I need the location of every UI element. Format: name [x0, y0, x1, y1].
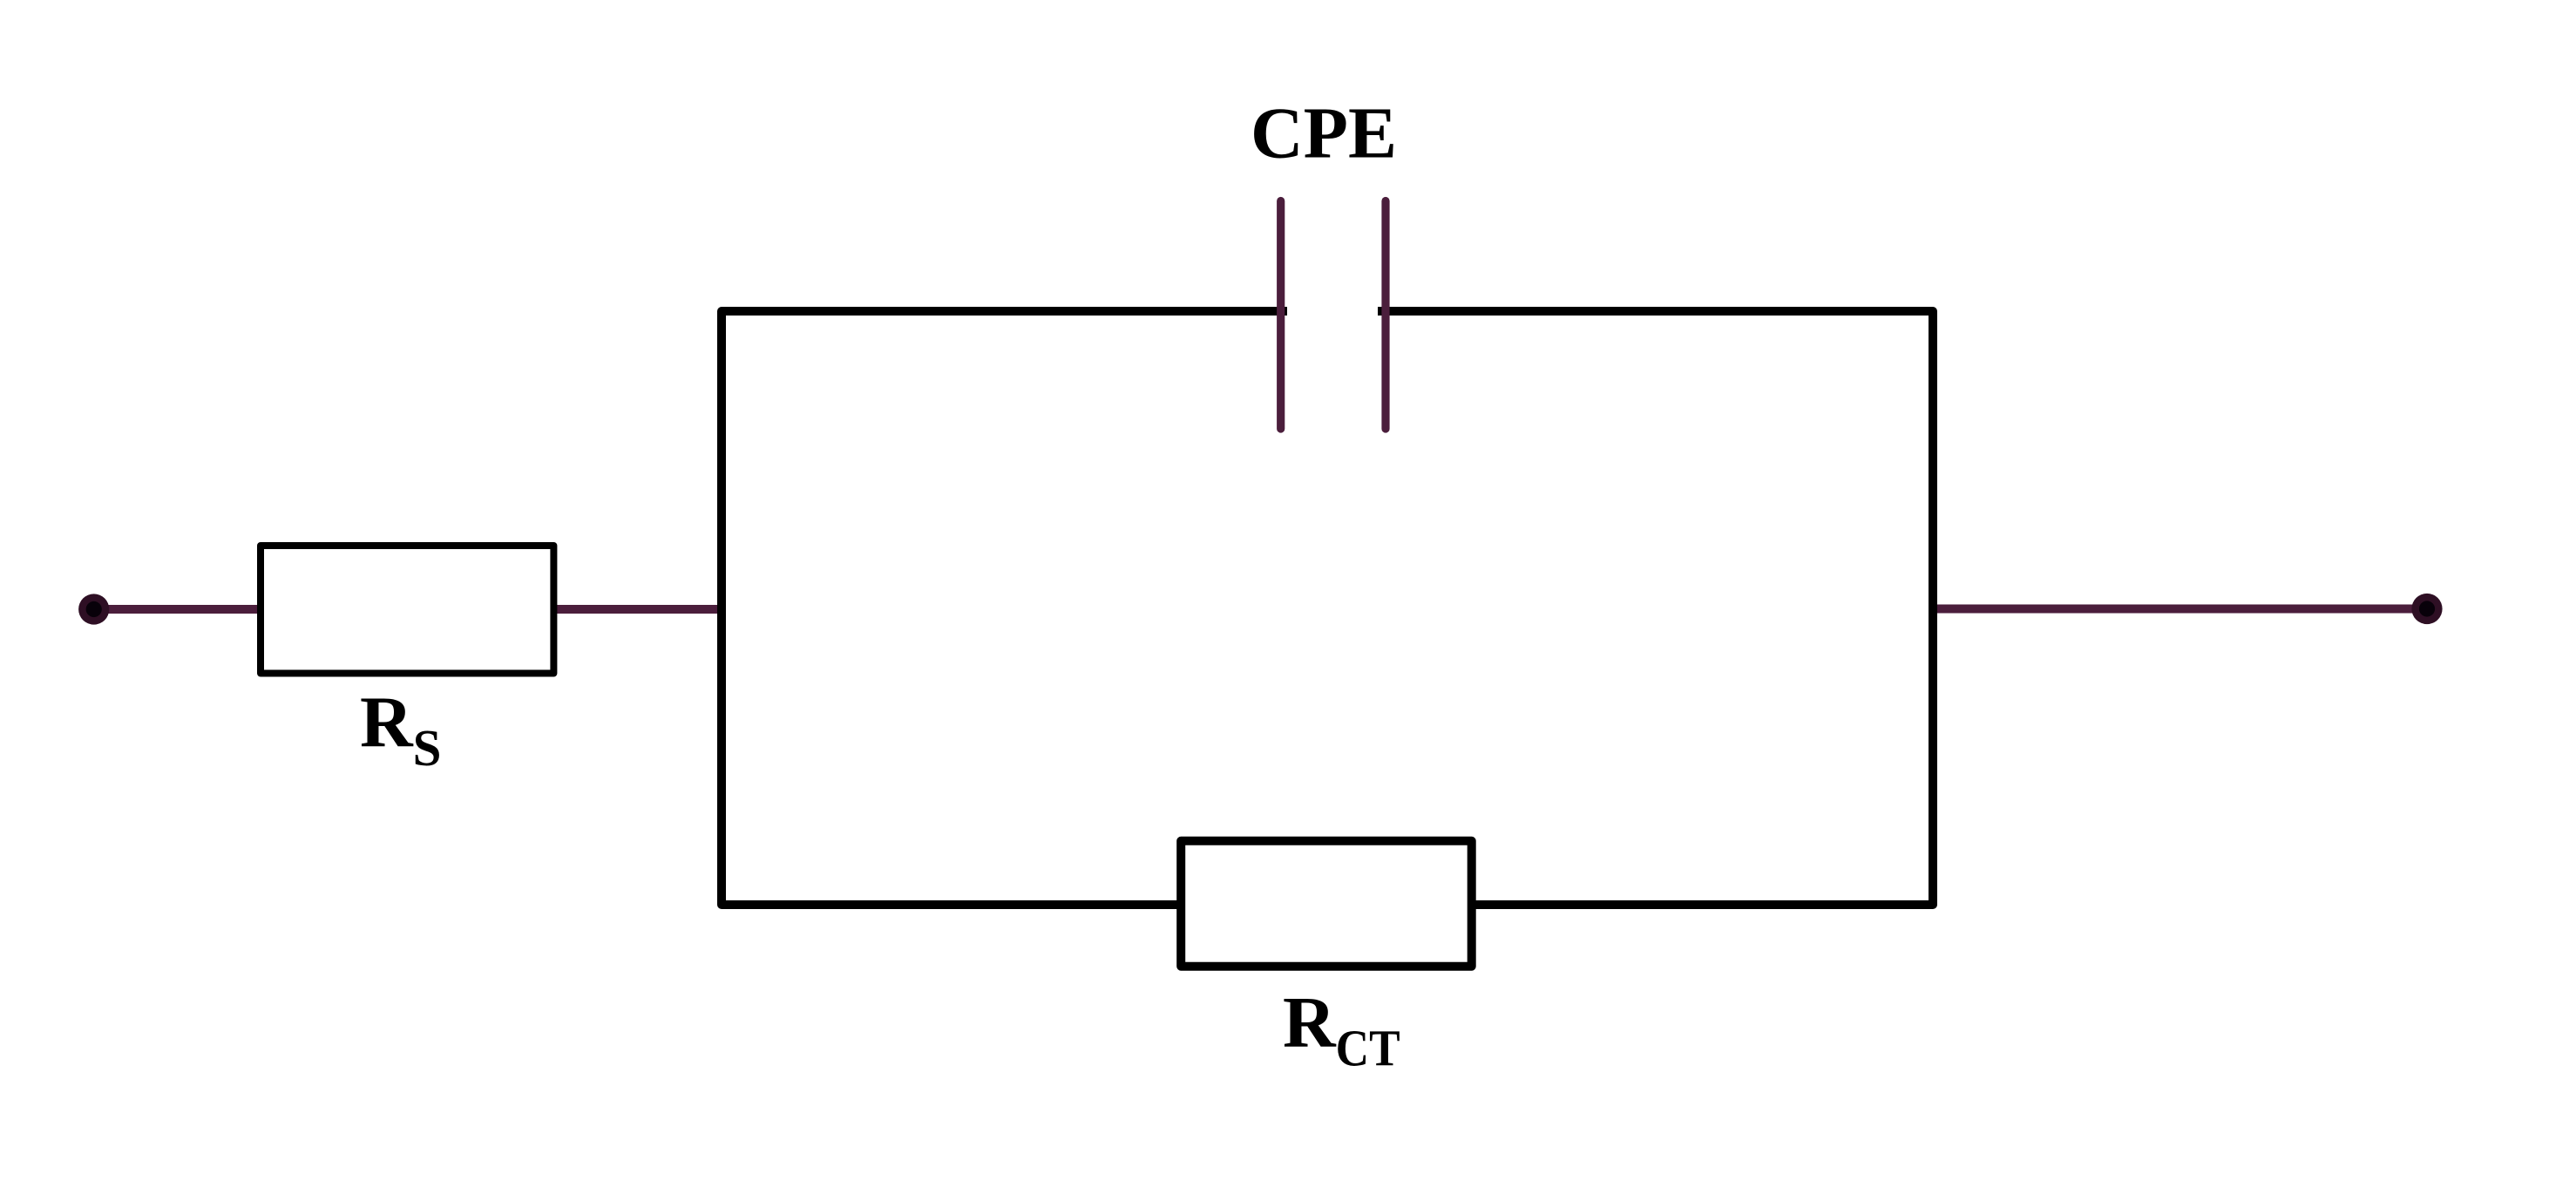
capacitor CPE plate right — [1381, 201, 1389, 430]
parallel loop wire — [722, 311, 1933, 905]
wire Rs to parallel node — [551, 605, 725, 614]
resistor RS body — [261, 546, 553, 674]
right terminal node — [2411, 594, 2442, 624]
wire left terminal to Rs — [93, 605, 266, 614]
svg-text:RCT: RCT — [1283, 982, 1400, 1076]
resistor RCT body — [1181, 841, 1472, 967]
capacitor CPE plate left — [1277, 201, 1285, 430]
svg-text:RS: RS — [360, 682, 442, 776]
wire parallel node to right terminal — [1929, 605, 2427, 614]
left terminal node — [78, 594, 109, 624]
svg-text:CPE: CPE — [1251, 93, 1397, 174]
